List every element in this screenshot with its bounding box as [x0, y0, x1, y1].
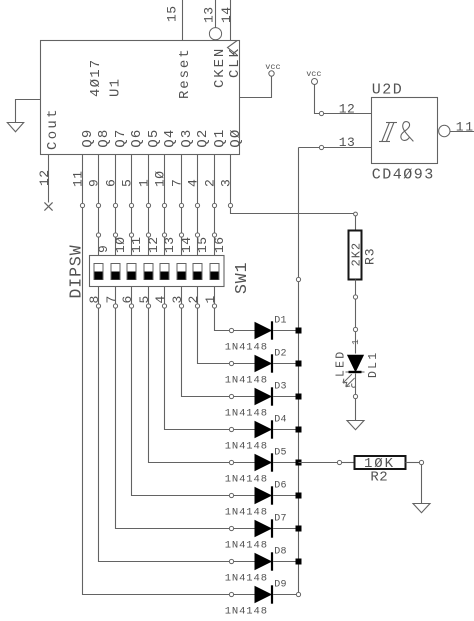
svg-text:CLK: CLK: [227, 47, 243, 78]
wire joint on Q8 column: [96, 203, 100, 207]
wire bus to R2: [299, 462, 338, 464]
wire Q8 pin 9 down to SW1: [98, 155, 100, 256]
SW1 bottom pin joint (pin 8): [96, 304, 100, 308]
wire VCC to U1 right edge: [240, 76, 272, 97]
ground symbol (R2): [413, 504, 430, 513]
svg-text:Q2: Q2: [195, 128, 211, 147]
svg-text:D5: D5: [274, 447, 287, 458]
ground for U1 VSS wire: [16, 100, 41, 123]
wire Q0 pin 3 down then right to R3: [231, 155, 356, 214]
junction on bus at D3: [296, 394, 302, 400]
wire joint at Q0 corner to R3: [354, 212, 358, 216]
svg-text:3: 3: [219, 179, 234, 187]
SW1 top pin joint (pin 9): [96, 233, 100, 237]
svg-text:R2: R2: [370, 469, 388, 485]
svg-text:Cout: Cout: [45, 107, 61, 150]
bus wire from U2D pin 13 down to D9: [298, 148, 300, 595]
wire VCC to U2D pin 12: [315, 85, 372, 114]
svg-text:11: 11: [129, 236, 144, 253]
wire joint at bus end (D9): [296, 592, 300, 596]
SW1 top pin joint (pin 15): [195, 233, 199, 237]
svg-text:Q5: Q5: [146, 128, 162, 147]
svg-text:vcc: vcc: [265, 62, 280, 72]
wire Q6 pin 5 down to SW1: [131, 155, 133, 256]
svg-text:14: 14: [179, 236, 194, 253]
wire joint on Q6 column: [129, 203, 133, 207]
svg-text:QØ: QØ: [228, 128, 244, 147]
svg-text:U1: U1: [108, 78, 124, 97]
junction on bus at D4: [296, 427, 302, 433]
resistor R3 body: [349, 231, 362, 280]
SW1 bottom pin joint (pin 1): [212, 304, 216, 308]
ground symbol (LED): [347, 421, 364, 430]
wire joint right of R2: [419, 460, 423, 464]
wire CKEN pin 13 from top edge: [215, 0, 217, 28]
svg-text:1N4148: 1N4148: [225, 342, 268, 354]
diode D4 1N4148: [255, 422, 271, 438]
wire LED to ground: [355, 399, 357, 421]
wire joint on D9 anode wire: [229, 592, 233, 596]
U2D output inversion bubble pin 11: [439, 125, 450, 136]
svg-text:7: 7: [170, 179, 185, 187]
svg-text:12: 12: [146, 236, 161, 253]
wire D8 cathode to bus: [273, 561, 298, 563]
svg-text:CD4Ø93: CD4Ø93: [372, 167, 435, 184]
wire bus to U2D pin 13: [299, 147, 372, 149]
svg-text:LED: LED: [335, 350, 348, 377]
wire D7 cathode to bus: [273, 528, 298, 530]
svg-text:8: 8: [87, 295, 102, 303]
no-connect X on Cout: [44, 202, 52, 210]
wire joint on D7 anode wire: [229, 526, 233, 530]
SW1 switch element 6: [177, 264, 186, 280]
wire joint on Q7 column: [113, 203, 117, 207]
wire D4 cathode to bus: [273, 429, 298, 431]
SW1 bottom pin joint (pin 2): [195, 304, 199, 308]
SW1 bottom pin wire (pin 8): [99, 287, 256, 562]
junction on bus at D2: [296, 361, 302, 367]
wire joint on D6 anode wire: [229, 493, 233, 497]
svg-text:2: 2: [203, 179, 218, 187]
svg-text:1: 1: [203, 295, 218, 303]
wire U2D output pin 11 to edge: [450, 131, 474, 133]
SW1 top pin joint (pin 11): [129, 233, 133, 237]
svg-text:1N4148: 1N4148: [225, 573, 268, 585]
svg-text:11: 11: [71, 170, 86, 187]
SW1 bottom pin wire (pin 1): [215, 287, 256, 331]
svg-text:12: 12: [339, 102, 356, 117]
wire D5 cathode to bus: [273, 462, 298, 464]
svg-text:1Ø: 1Ø: [153, 170, 168, 187]
wire joint on Q5 column: [146, 203, 150, 207]
LED light arrows: [343, 374, 351, 382]
SW1 top pin joint (pin 12): [146, 233, 150, 237]
svg-text:1N4148: 1N4148: [225, 606, 268, 618]
wire Q4 pin 10 down to SW1: [164, 155, 166, 256]
wire joint on Q4 column: [162, 203, 166, 207]
svg-text:5: 5: [137, 295, 152, 303]
svg-text:Q6: Q6: [129, 128, 145, 147]
svg-text:D1: D1: [274, 315, 287, 326]
svg-text:1N4148: 1N4148: [225, 540, 268, 552]
SW1 bottom pin wire (pin 6): [132, 287, 256, 496]
svg-text:1N4148: 1N4148: [225, 507, 268, 519]
SW1 switch element 3: [127, 264, 136, 280]
wire Q3 pin 7 down to SW1: [181, 155, 183, 256]
SW1 bottom pin joint (pin 4): [162, 304, 166, 308]
wire joint on Q1 column: [212, 203, 216, 207]
svg-text:vcc: vcc: [306, 69, 321, 79]
wire D2 cathode to bus: [273, 363, 298, 365]
wire Reset pin 15 from top edge: [182, 0, 184, 41]
svg-text:CKEN: CKEN: [212, 47, 228, 88]
SW1 top pin joint (pin 16): [212, 233, 216, 237]
wire R2 to ground: [421, 465, 423, 504]
svg-text:Q9: Q9: [80, 128, 96, 147]
svg-text:4: 4: [186, 179, 201, 187]
svg-text:12: 12: [37, 169, 52, 186]
wire joint below R3: [353, 295, 357, 299]
wire joint at LED pin 1: [353, 327, 357, 331]
wire R3 top: [355, 216, 357, 231]
wire joint on Q9 column: [80, 203, 84, 207]
svg-text:13: 13: [202, 6, 217, 23]
svg-text:9: 9: [87, 179, 102, 187]
wire joint on Q3 column: [179, 203, 183, 207]
wire joint on D2 anode wire: [229, 361, 233, 365]
svg-text:Q4: Q4: [162, 128, 178, 147]
SW1 bottom pin wire (pin 7): [116, 287, 256, 529]
wire R3 bottom: [355, 280, 357, 296]
power VCC for U2D pin 12: [312, 79, 318, 85]
svg-text:15: 15: [165, 5, 180, 22]
svg-text:1: 1: [137, 179, 152, 187]
junction on bus at D1: [296, 328, 302, 334]
svg-text:16: 16: [212, 236, 227, 253]
diode D7 1N4148: [255, 521, 271, 537]
wire into LED: [355, 332, 357, 354]
diode D2 1N4148: [255, 356, 271, 372]
svg-text:6: 6: [120, 295, 135, 303]
SW1 bottom pin joint (pin 5): [146, 304, 150, 308]
junction on bus at D7: [296, 526, 302, 532]
svg-text:DL1: DL1: [367, 351, 380, 378]
svg-text:Q3: Q3: [179, 128, 195, 147]
svg-text:DIPSW: DIPSW: [66, 244, 85, 298]
svg-text:D3: D3: [274, 381, 287, 392]
svg-text:5: 5: [120, 179, 135, 187]
resistor R2 body: [355, 456, 406, 469]
wire LED cathode: [355, 374, 357, 395]
SW1 bottom pin wire (pin 5): [149, 287, 256, 463]
wire joint on Q0 column: [228, 203, 232, 207]
SW1 switch element 8: [210, 264, 219, 280]
svg-text:D7: D7: [274, 513, 287, 524]
svg-text:D2: D2: [274, 348, 287, 359]
diode D6 1N4148: [255, 488, 271, 504]
wire joint at LED pin 2: [353, 394, 357, 398]
diode D5 1N4148: [255, 455, 271, 471]
wire joint on Q2 column: [195, 203, 199, 207]
diode D8 1N4148: [255, 554, 271, 570]
NAND gate U2D body (CD4093): [372, 98, 438, 164]
ground symbol (U1): [7, 123, 23, 132]
wire joint on D8 anode wire: [229, 559, 233, 563]
wire Q1 pin 2 down to SW1: [214, 155, 216, 256]
svg-text:11: 11: [456, 120, 474, 135]
svg-text:D4: D4: [274, 414, 287, 425]
svg-text:1Ø: 1Ø: [113, 236, 128, 253]
wire D9 cathode to bus: [273, 594, 298, 596]
DIP switch SW1 body: [90, 256, 225, 287]
IC U1 4017 decade counter body: [41, 41, 240, 155]
svg-text:Q7: Q7: [113, 128, 129, 147]
svg-text:1N4148: 1N4148: [225, 474, 268, 486]
wire D1 cathode to bus: [273, 330, 298, 332]
U2D schmitt-trigger symbol: [379, 141, 390, 143]
wire Q7 pin 6 down to SW1: [115, 155, 117, 256]
junction on bus at D8: [296, 559, 302, 565]
LED DL1 symbol: [348, 355, 364, 371]
svg-text:Reset: Reset: [177, 47, 193, 99]
junction on bus at D6: [296, 493, 302, 499]
svg-text:13: 13: [339, 135, 356, 150]
U1 CLK edge-trigger chevron: [228, 41, 238, 56]
svg-text:Q1: Q1: [212, 128, 228, 147]
svg-text:13: 13: [162, 236, 177, 253]
SW1 top pin joint (pin 13): [162, 233, 166, 237]
svg-text:7: 7: [104, 295, 119, 303]
svg-text:D9: D9: [274, 579, 287, 590]
SW1 bottom pin wire (pin 3): [182, 287, 256, 397]
SW1 bottom pin joint (pin 3): [179, 304, 183, 308]
svg-text:U2D: U2D: [372, 82, 404, 99]
svg-text:6: 6: [104, 179, 119, 187]
svg-text:4Ø17: 4Ø17: [88, 59, 104, 97]
U1 CKEN inversion bubble: [209, 28, 221, 40]
svg-text:1N4148: 1N4148: [225, 375, 268, 387]
svg-text:9: 9: [96, 245, 111, 253]
SW1 top pin joint (pin 10): [113, 233, 117, 237]
SW1 switch element 1: [94, 264, 103, 280]
wire joint on D4 anode wire: [229, 427, 233, 431]
SW1 switch element 2: [111, 264, 120, 280]
wire joint on D5 anode wire: [229, 460, 233, 464]
svg-text:2: 2: [186, 295, 201, 303]
power VCC for U1 pin 16: [269, 71, 274, 76]
svg-text:1N4148: 1N4148: [225, 441, 268, 453]
svg-text:1N4148: 1N4148: [225, 408, 268, 420]
wire joint on pin 13 wire: [319, 145, 323, 149]
wire Q5 pin 1 down to SW1: [148, 155, 150, 256]
SW1 switch element 5: [160, 264, 169, 280]
wire to LED anode: [355, 299, 357, 328]
wire joint on bus: [296, 277, 300, 281]
wire joint on pin 12 wire: [319, 111, 323, 115]
SW1 bottom pin joint (pin 6): [129, 304, 133, 308]
svg-text:SW1: SW1: [232, 262, 251, 294]
wire joint on D1 anode wire: [229, 328, 233, 332]
wire joint on D3 anode wire: [229, 394, 233, 398]
SW1 switch element 4: [144, 264, 153, 280]
svg-text:D8: D8: [274, 546, 287, 557]
svg-text:14: 14: [219, 6, 234, 23]
svg-text:D6: D6: [274, 480, 287, 491]
diode D9 1N4148: [255, 587, 271, 603]
wire D3 cathode to bus: [273, 396, 298, 398]
svg-text:R3: R3: [362, 247, 377, 265]
wire Q9 pin 11 down to D9 row: [83, 155, 256, 595]
svg-text:3: 3: [170, 295, 185, 303]
diode D3 1N4148: [255, 389, 271, 405]
SW1 bottom pin wire (pin 2): [198, 287, 256, 364]
SW1 switch element 7: [193, 264, 202, 280]
svg-text:15: 15: [195, 236, 210, 253]
diode D1 1N4148: [255, 323, 271, 339]
wire joint to R2 left lead: [342, 462, 355, 464]
wire joint left of R2: [337, 460, 341, 464]
U2D AND symbol: [401, 122, 414, 142]
wire D6 cathode to bus: [273, 495, 298, 497]
wire Q2 pin 4 down to SW1: [197, 155, 199, 256]
svg-text:4: 4: [153, 295, 168, 303]
SW1 bottom pin wire (pin 4): [165, 287, 256, 430]
junction on bus at D5: [296, 460, 302, 466]
U1 Cout pin 12 wire: [48, 155, 50, 203]
wire CLK pin 14 from top edge: [230, 0, 232, 41]
svg-text:Q8: Q8: [96, 128, 112, 147]
wire R2 right lead: [406, 462, 420, 464]
SW1 bottom pin joint (pin 7): [113, 304, 117, 308]
SW1 top pin joint (pin 14): [179, 233, 183, 237]
